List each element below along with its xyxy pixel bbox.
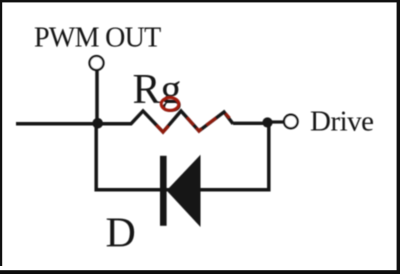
wire right vertical from Drive junction down: [267, 123, 271, 192]
wire left horizontal lead: [16, 122, 132, 126]
wire stub to Drive terminal: [268, 120, 284, 123]
svg-text:D: D: [106, 211, 136, 257]
wire from resistor to Drive junction: [233, 122, 268, 125]
terminal PWM OUT: [90, 56, 104, 70]
svg-text:Rg: Rg: [133, 67, 182, 113]
wire from PWM terminal down to left junction: [95, 71, 99, 125]
junction node left: [92, 118, 103, 129]
red loop on g of Rg: [161, 98, 179, 111]
resistor R1 Rg zigzag: [131, 111, 233, 132]
wire left vertical down to bottom loop: [94, 124, 98, 192]
terminal Drive: [284, 115, 298, 129]
junction node Drive: [262, 117, 272, 127]
diode D cathode bar: [160, 156, 167, 226]
wire bottom horizontal of loop: [95, 188, 271, 192]
svg-text:Drive: Drive: [310, 106, 374, 138]
diode D triangle anode: [167, 155, 201, 227]
svg-text:PWM OUT: PWM OUT: [34, 23, 161, 54]
